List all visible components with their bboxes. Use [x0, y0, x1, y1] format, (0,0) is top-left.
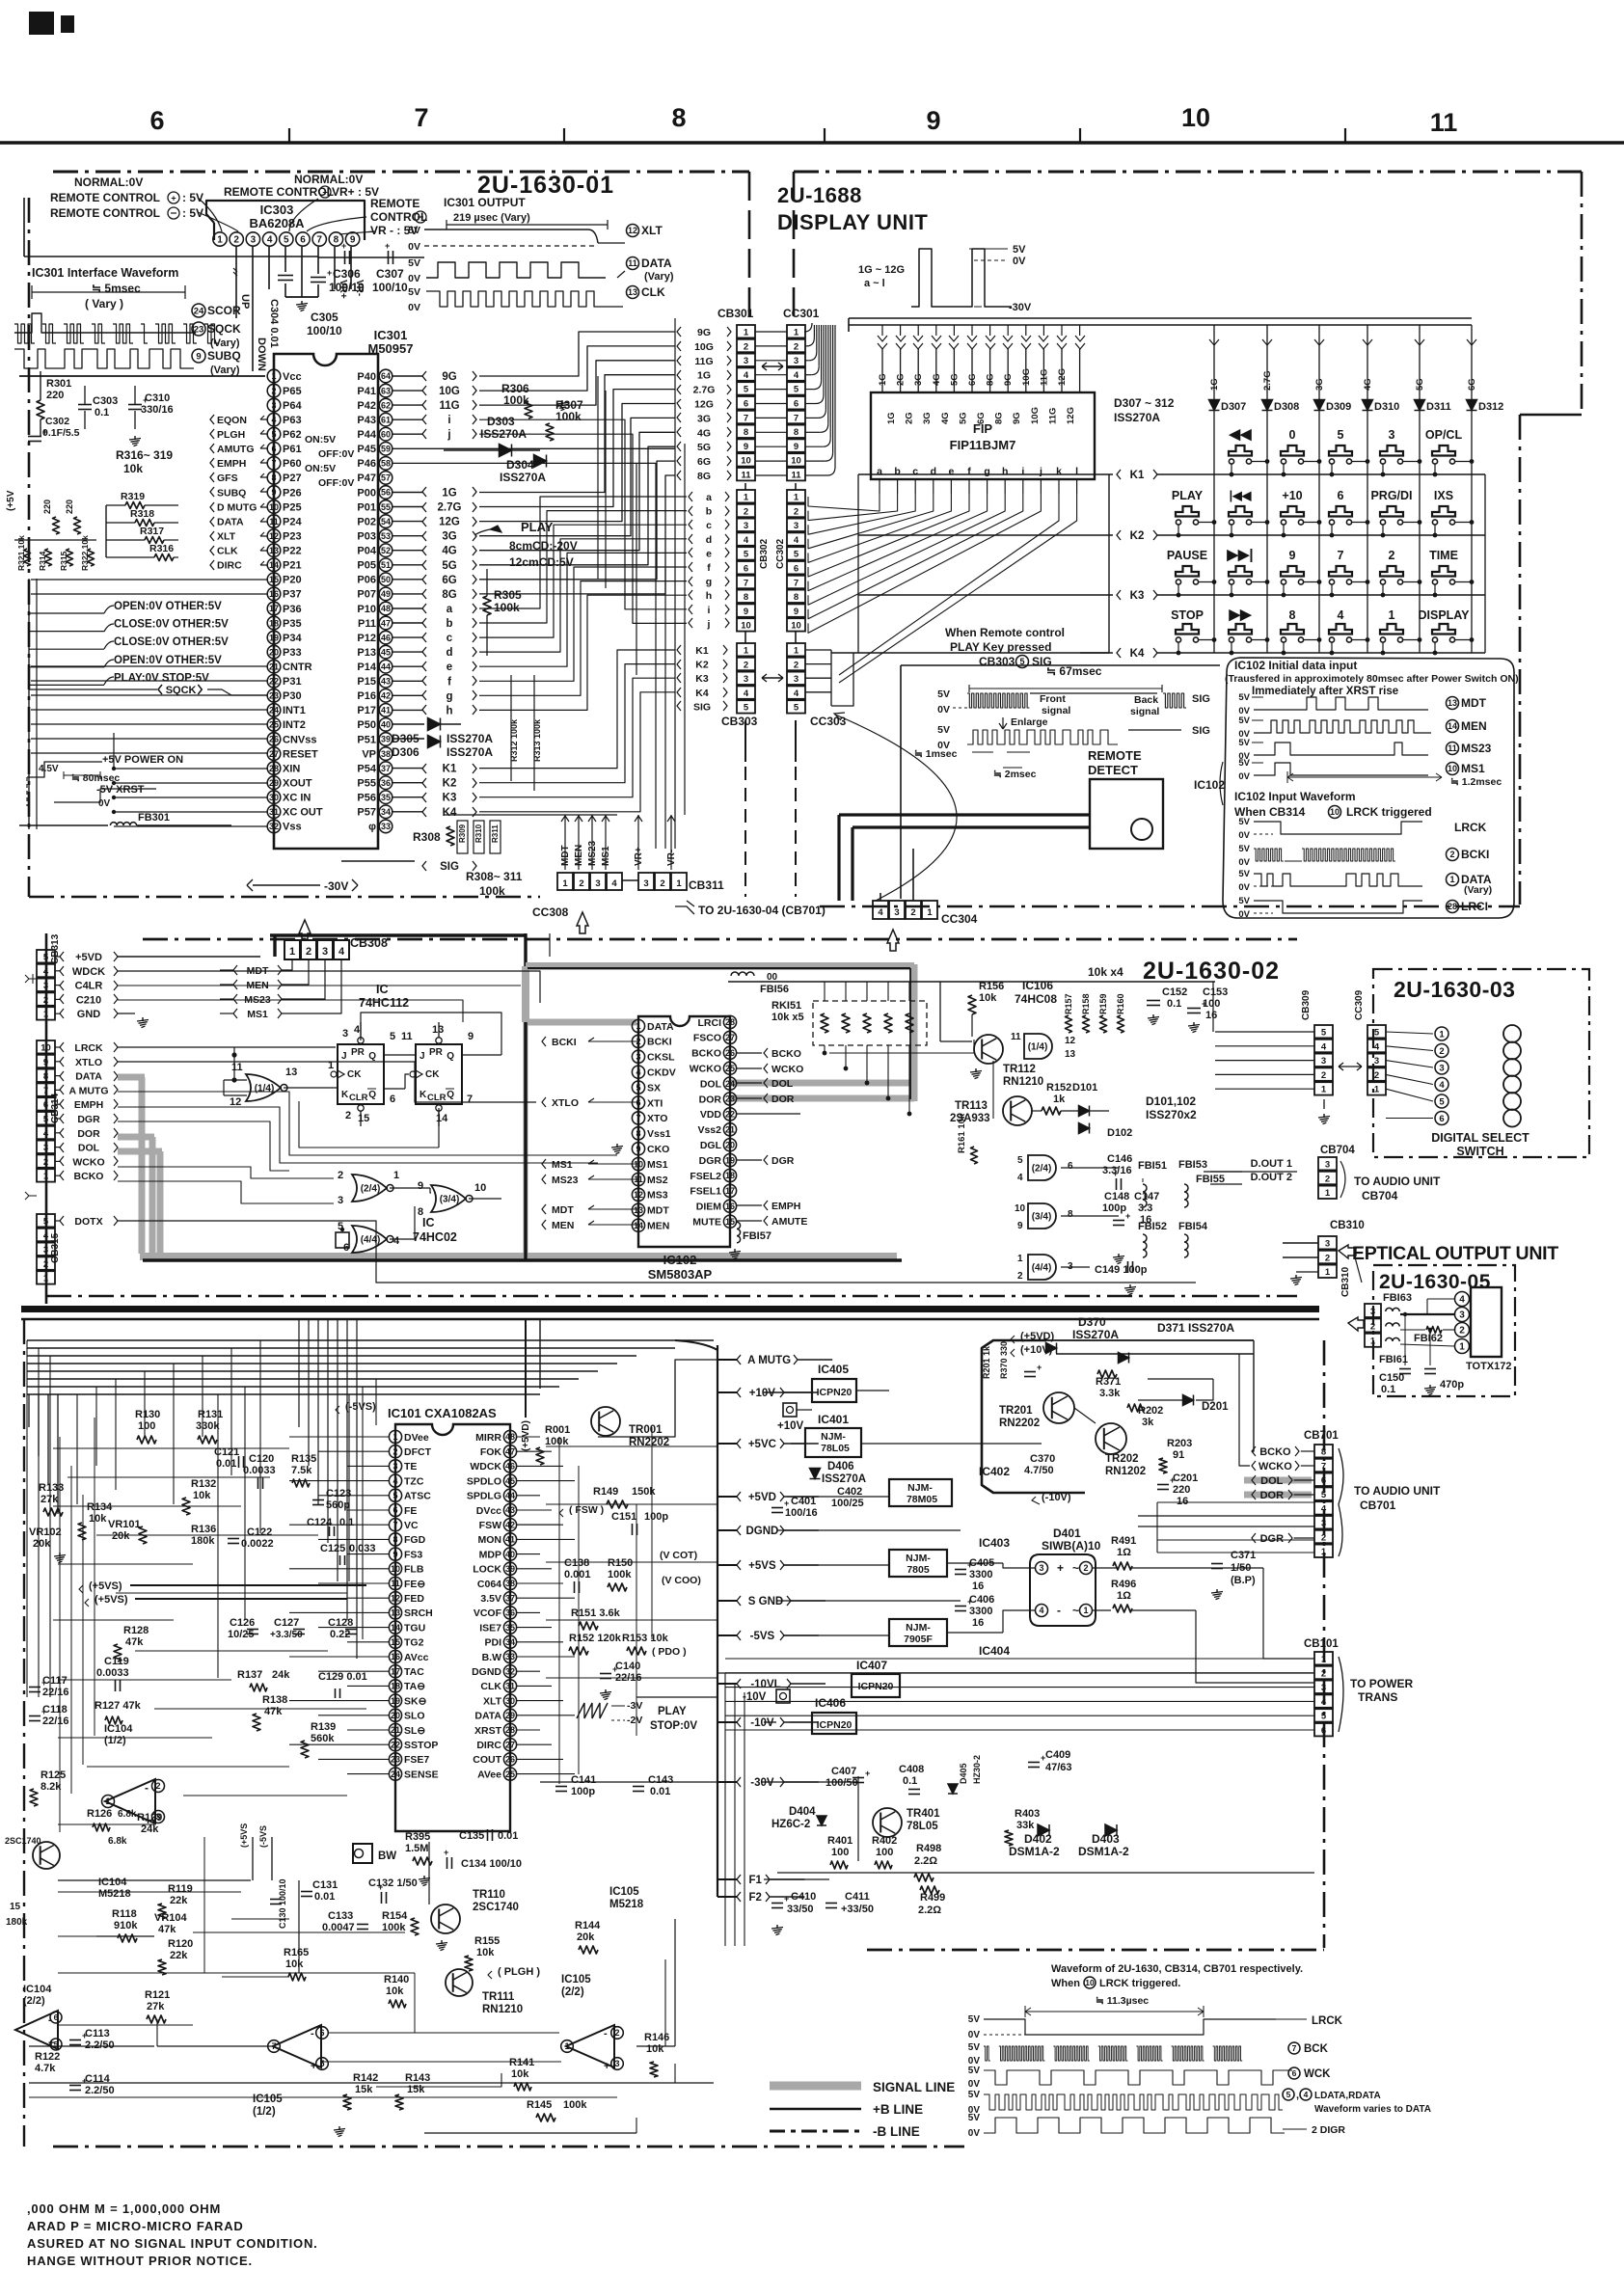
svg-text:CK: CK: [425, 1069, 440, 1080]
svg-text:4: 4: [43, 966, 49, 977]
svg-text:ISS270A: ISS270A: [1114, 411, 1160, 424]
svg-text:10k: 10k: [285, 1958, 304, 1970]
svg-text:Vss1: Vss1: [647, 1128, 671, 1140]
svg-text:ARAD P = MICRO-MICRO FARAD: ARAD P = MICRO-MICRO FARAD: [27, 2219, 244, 2233]
svg-text:P07: P07: [357, 589, 376, 601]
svg-text:c: c: [447, 633, 453, 644]
svg-text:28: 28: [725, 1017, 735, 1027]
svg-text:FBI56: FBI56: [760, 984, 789, 995]
svg-text:a ~ l: a ~ l: [864, 278, 885, 289]
svg-text:2: 2: [271, 386, 276, 395]
svg-text:31: 31: [505, 1682, 515, 1691]
svg-text:+: +: [612, 1664, 617, 1674]
svg-text:(Vary): (Vary): [210, 365, 240, 376]
svg-text:26: 26: [505, 1755, 515, 1765]
svg-text:IC104: IC104: [98, 1877, 127, 1888]
svg-text:ISS270A: ISS270A: [500, 471, 546, 484]
svg-text:DATA: DATA: [474, 1711, 501, 1722]
svg-text:2: 2: [1459, 1326, 1465, 1337]
svg-text:MS1: MS1: [647, 1159, 668, 1171]
svg-text:TR111: TR111: [482, 1991, 515, 2003]
svg-text:R153 10k: R153 10k: [622, 1633, 669, 1644]
svg-text:d: d: [931, 466, 936, 477]
svg-text:IC102: IC102: [663, 1253, 697, 1267]
svg-text:10: 10: [1181, 103, 1210, 132]
svg-text:K4: K4: [443, 807, 457, 819]
svg-text:6: 6: [636, 1098, 640, 1108]
svg-text:C128: C128: [328, 1617, 353, 1629]
svg-text:CLOSE:0V OTHER:5V: CLOSE:0V OTHER:5V: [114, 619, 229, 631]
svg-text:+: +: [82, 2076, 87, 2086]
svg-text:43: 43: [381, 677, 391, 687]
svg-text:11: 11: [628, 258, 637, 268]
svg-text:IC: IC: [376, 983, 389, 996]
svg-text:R143: R143: [405, 2072, 430, 2084]
svg-text:1: 1: [1325, 1188, 1331, 1199]
svg-text:VP: VP: [362, 748, 376, 760]
svg-text:P65: P65: [283, 386, 302, 397]
svg-text:R149: R149: [593, 1486, 618, 1498]
svg-text:220: 220: [1173, 1484, 1190, 1496]
svg-text:0.01: 0.01: [314, 1891, 335, 1903]
svg-text:D405: D405: [959, 1763, 968, 1784]
svg-text:19: 19: [269, 633, 279, 642]
svg-text:37: 37: [381, 764, 391, 773]
svg-text:R498: R498: [916, 1843, 941, 1854]
svg-text:220: 220: [42, 500, 52, 514]
svg-text:+3.3/50: +3.3/50: [270, 1630, 303, 1640]
svg-text:+: +: [41, 1707, 46, 1716]
svg-text:100/25: 100/25: [831, 1498, 864, 1509]
svg-text:27k: 27k: [41, 1494, 59, 1505]
svg-text:5G: 5G: [697, 442, 711, 453]
svg-text:FBI55: FBI55: [1196, 1174, 1225, 1185]
svg-text:CB301: CB301: [717, 307, 754, 320]
svg-text:DGL: DGL: [700, 1140, 722, 1151]
svg-text:2U-1688: 2U-1688: [777, 183, 862, 207]
svg-text:6G: 6G: [976, 412, 987, 424]
svg-text:FSW: FSW: [479, 1520, 501, 1531]
svg-text:(B.P): (B.P): [1231, 1575, 1256, 1586]
svg-text:8: 8: [671, 103, 686, 132]
svg-text:1: 1: [1449, 875, 1454, 884]
svg-text:42: 42: [381, 691, 391, 701]
svg-text:7: 7: [1338, 549, 1344, 562]
svg-text:h: h: [706, 590, 712, 602]
svg-text:6: 6: [1321, 1475, 1326, 1486]
svg-text:R402: R402: [872, 1835, 897, 1847]
svg-text:K4: K4: [1130, 648, 1145, 660]
svg-text:FBI61: FBI61: [1379, 1354, 1408, 1365]
svg-text:3.5V: 3.5V: [480, 1593, 501, 1605]
svg-text:C201: C201: [1173, 1472, 1198, 1484]
svg-text:LRCK triggered: LRCK triggered: [1346, 805, 1432, 819]
svg-text:3: 3: [744, 356, 748, 366]
svg-text:2: 2: [233, 235, 239, 246]
svg-text:+10: +10: [1282, 489, 1302, 502]
svg-text:SIWB(A)10: SIWB(A)10: [1042, 1539, 1101, 1553]
svg-text:NJM-: NJM-: [906, 1622, 931, 1634]
svg-text:C113: C113: [85, 2028, 110, 2039]
svg-text:FBI53: FBI53: [1178, 1159, 1207, 1171]
svg-text:4: 4: [393, 1235, 400, 1247]
svg-text:TR110: TR110: [473, 1889, 505, 1901]
svg-text:(+5VS: (+5VS: [239, 1823, 249, 1848]
svg-text:64: 64: [381, 371, 391, 381]
svg-text:MIRR: MIRR: [475, 1432, 501, 1444]
svg-text:+: +: [1170, 1475, 1175, 1485]
svg-text:36: 36: [381, 778, 391, 788]
svg-text:2: 2: [345, 1110, 351, 1121]
svg-text:NORMAL:0V: NORMAL:0V: [74, 176, 143, 189]
svg-text:K3: K3: [1130, 590, 1145, 602]
svg-text:WCKO: WCKO: [690, 1064, 721, 1075]
svg-text:C122: C122: [247, 1526, 272, 1538]
svg-text:5V: 5V: [937, 689, 950, 700]
svg-text:6: 6: [1068, 1161, 1073, 1172]
svg-text:,: ,: [1296, 2090, 1299, 2101]
svg-text:13: 13: [1448, 698, 1457, 708]
svg-text:(+5VS): (+5VS): [89, 1580, 122, 1592]
svg-text:i: i: [708, 605, 711, 616]
svg-text:47/63: 47/63: [1045, 1762, 1072, 1773]
svg-text:12: 12: [269, 531, 279, 541]
svg-text:6: 6: [392, 1505, 397, 1515]
svg-text:38: 38: [505, 1579, 515, 1588]
svg-text:5: 5: [1321, 1028, 1327, 1039]
svg-text:BCKO: BCKO: [74, 1171, 104, 1182]
svg-text:Waveform of 2U-1630, CB314, C: Waveform of 2U-1630, CB314, CB701 respec…: [1051, 1963, 1303, 1975]
svg-text:48: 48: [381, 604, 391, 613]
svg-text:R318: R318: [130, 508, 154, 520]
svg-text:DOL: DOL: [700, 1078, 722, 1090]
svg-text:0V: 0V: [937, 704, 950, 716]
svg-text:R132: R132: [191, 1478, 216, 1490]
svg-text:IC402: IC402: [979, 1465, 1010, 1478]
svg-text:20: 20: [725, 1140, 735, 1149]
svg-text:d: d: [446, 647, 452, 659]
svg-text:2: 2: [1449, 850, 1454, 859]
svg-text:5V: 5V: [1238, 692, 1250, 703]
svg-text:j: j: [447, 429, 450, 441]
svg-text:BA6208A: BA6208A: [249, 216, 305, 230]
svg-text:2: 2: [306, 946, 311, 958]
svg-text:IC401: IC401: [818, 1413, 849, 1426]
svg-text:ICPN20: ICPN20: [858, 1681, 894, 1692]
svg-text:1: 1: [217, 235, 223, 246]
svg-text:SIG: SIG: [693, 701, 711, 713]
svg-text:IC301 OUTPUT: IC301 OUTPUT: [444, 196, 526, 209]
svg-text:D101,102: D101,102: [1146, 1094, 1196, 1108]
svg-text:WCKO: WCKO: [72, 1156, 104, 1168]
svg-text:g: g: [706, 577, 712, 588]
svg-text:PLAY:0V STOP:5V: PLAY:0V STOP:5V: [114, 672, 209, 684]
svg-text:17: 17: [391, 1666, 400, 1676]
svg-text:R138: R138: [262, 1694, 287, 1706]
svg-text:C148: C148: [1104, 1191, 1129, 1202]
svg-text:21: 21: [269, 662, 279, 671]
svg-text:3k: 3k: [1142, 1417, 1154, 1428]
svg-text:36: 36: [505, 1608, 515, 1618]
svg-text:MON: MON: [478, 1534, 502, 1546]
svg-text:P36: P36: [283, 604, 302, 615]
svg-text:(1/2): (1/2): [253, 2106, 276, 2118]
svg-text:P47: P47: [357, 473, 376, 484]
svg-text:▶▶: ▶▶: [1228, 607, 1253, 623]
svg-text:4: 4: [1321, 1697, 1327, 1708]
svg-text:7905F: 7905F: [904, 1634, 933, 1645]
svg-text:SPDLO: SPDLO: [467, 1475, 501, 1487]
svg-text:25: 25: [725, 1064, 735, 1073]
svg-text:3: 3: [342, 1028, 348, 1040]
svg-text:2: 2: [1083, 1563, 1088, 1573]
svg-text:11: 11: [1011, 1032, 1021, 1042]
svg-text:3: 3: [1439, 1063, 1444, 1073]
svg-text:5V: 5V: [1238, 869, 1250, 879]
svg-text:+: +: [378, 1882, 383, 1892]
svg-text:25: 25: [269, 720, 279, 730]
svg-text:8G: 8G: [442, 589, 456, 601]
svg-text:DOL: DOL: [78, 1143, 100, 1154]
svg-text:|◀◀: |◀◀: [1230, 489, 1253, 502]
svg-text:BCKO: BCKO: [771, 1048, 801, 1060]
svg-text:48: 48: [505, 1432, 515, 1442]
svg-text:28: 28: [1448, 902, 1457, 911]
svg-text:2: 2: [1325, 1174, 1330, 1184]
svg-text:-30V: -30V: [324, 879, 348, 893]
svg-text:CC304: CC304: [941, 912, 978, 926]
svg-text:C401: C401: [791, 1496, 816, 1507]
svg-text:XLT: XLT: [641, 224, 663, 237]
svg-text:XOUT: XOUT: [283, 778, 312, 790]
svg-text:B.W: B.W: [482, 1652, 502, 1663]
svg-text:5V: 5V: [1238, 896, 1250, 906]
svg-text:10: 10: [1330, 807, 1340, 817]
svg-text:50: 50: [381, 575, 391, 584]
svg-text:24: 24: [269, 706, 279, 716]
svg-text:4: 4: [1304, 2090, 1309, 2099]
svg-text:41: 41: [381, 706, 391, 716]
svg-text:29: 29: [505, 1711, 515, 1720]
svg-text:SUBQ: SUBQ: [217, 487, 246, 499]
svg-text:: 5V: : 5V: [182, 191, 203, 204]
svg-text:8: 8: [271, 473, 276, 483]
svg-text:C402: C402: [837, 1486, 862, 1498]
svg-text:DATA: DATA: [217, 516, 244, 527]
svg-text:5: 5: [390, 1031, 395, 1042]
svg-text:16: 16: [725, 1202, 735, 1211]
svg-text:9: 9: [636, 1144, 640, 1153]
svg-text:19: 19: [391, 1696, 400, 1706]
svg-text:52: 52: [381, 546, 391, 555]
svg-text:0V: 0V: [1238, 830, 1250, 841]
svg-text:3: 3: [392, 1462, 397, 1472]
svg-text:20: 20: [269, 647, 279, 657]
svg-text:9: 9: [794, 607, 798, 617]
svg-text:1: 1: [636, 1021, 640, 1031]
svg-text:58: 58: [381, 459, 391, 469]
svg-text:3: 3: [1321, 1519, 1326, 1529]
svg-text:i: i: [447, 415, 450, 426]
svg-text:CB308: CB308: [350, 936, 388, 950]
svg-text:REMOTE: REMOTE: [370, 197, 420, 210]
svg-text:3: 3: [322, 946, 328, 958]
svg-text:≒ 11.3µsec: ≒ 11.3µsec: [1096, 1995, 1149, 2007]
svg-text:SQCK: SQCK: [166, 685, 197, 696]
svg-text:12G: 12G: [1057, 368, 1068, 386]
svg-text:330k: 330k: [196, 1420, 220, 1432]
svg-text:P05: P05: [357, 560, 376, 572]
svg-text:HANGE WITHOUT PRIOR NOTICE.: HANGE WITHOUT PRIOR NOTICE.: [27, 2254, 253, 2268]
svg-text:SSTOP: SSTOP: [404, 1740, 438, 1751]
svg-text:IC405: IC405: [818, 1363, 849, 1376]
svg-text:D307 ~ 312: D307 ~ 312: [1114, 396, 1175, 410]
svg-text:IC404: IC404: [979, 1644, 1010, 1658]
svg-text:-: -: [604, 2028, 608, 2039]
svg-text:XRST: XRST: [474, 1725, 502, 1737]
svg-text:CNTR: CNTR: [283, 662, 312, 673]
svg-text:2.2/50: 2.2/50: [85, 2039, 115, 2051]
svg-text:C134 100/10: C134 100/10: [461, 1858, 522, 1870]
svg-text:R135: R135: [291, 1453, 316, 1465]
svg-text:1.5M: 1.5M: [405, 1843, 428, 1854]
svg-text:When Remote control: When Remote control: [945, 626, 1065, 639]
svg-text:TOTX172: TOTX172: [1466, 1361, 1512, 1372]
svg-text:1: 1: [1374, 1085, 1380, 1095]
svg-text:6: 6: [744, 399, 748, 410]
svg-text:1: 1: [1083, 1606, 1088, 1615]
svg-text:IC301: IC301: [374, 328, 408, 342]
svg-text:WCKO: WCKO: [771, 1064, 803, 1075]
svg-text:0.0022: 0.0022: [241, 1538, 274, 1550]
svg-text:LRCK: LRCK: [1454, 821, 1487, 834]
svg-text:DGR: DGR: [1260, 1533, 1285, 1545]
svg-text:R203: R203: [1167, 1438, 1192, 1449]
svg-text:P10: P10: [357, 604, 376, 615]
svg-text:+10V: +10V: [749, 1388, 776, 1399]
svg-text:R127 47k: R127 47k: [95, 1700, 142, 1712]
svg-text:BCKO: BCKO: [1259, 1446, 1291, 1458]
svg-text:C133: C133: [328, 1910, 353, 1922]
svg-text:3: 3: [1459, 1310, 1465, 1321]
svg-text:CLK: CLK: [641, 285, 665, 299]
svg-text:φ: φ: [368, 822, 376, 833]
svg-text:0.0033: 0.0033: [96, 1667, 129, 1679]
svg-text:4G: 4G: [1363, 378, 1373, 391]
svg-text:2U-1630-03: 2U-1630-03: [1394, 977, 1515, 1002]
svg-text:4: 4: [1459, 1295, 1465, 1306]
svg-text:22/16: 22/16: [42, 1687, 69, 1698]
svg-text:3G: 3G: [913, 373, 924, 386]
svg-text:2: 2: [1325, 1253, 1330, 1263]
svg-text:9G: 9G: [1003, 373, 1014, 386]
svg-text:DGR: DGR: [77, 1114, 100, 1125]
svg-text:R308~ 311: R308~ 311: [466, 870, 523, 883]
svg-text:2: 2: [1389, 549, 1395, 562]
svg-text:C370: C370: [1030, 1453, 1055, 1465]
svg-text:5: 5: [1374, 1028, 1380, 1039]
svg-text:24k: 24k: [272, 1669, 290, 1681]
svg-text:ON:5V: ON:5V: [305, 434, 336, 446]
svg-text:ISS270x2: ISS270x2: [1146, 1108, 1197, 1121]
svg-text:15: 15: [391, 1637, 400, 1647]
svg-text:6.8k: 6.8k: [118, 1809, 137, 1820]
svg-text:C127: C127: [274, 1617, 299, 1629]
svg-text:10: 10: [741, 621, 751, 632]
svg-text:SIG: SIG: [440, 861, 459, 873]
svg-text:45: 45: [381, 647, 391, 657]
svg-text:22: 22: [725, 1110, 735, 1120]
svg-text:6: 6: [319, 2028, 324, 2038]
svg-text:5V: 5V: [408, 286, 420, 298]
svg-text:P04: P04: [357, 546, 376, 557]
svg-text:31: 31: [269, 807, 279, 817]
svg-text:12G: 12G: [439, 517, 460, 528]
svg-text:27k: 27k: [147, 2001, 165, 2012]
svg-text:(4/4): (4/4): [361, 1235, 381, 1246]
svg-text:K2: K2: [1130, 530, 1145, 542]
svg-text:C210: C210: [76, 994, 101, 1006]
svg-text:SRCH: SRCH: [404, 1607, 433, 1619]
svg-text:ASURED AT NO SIGNAL INPUT COND: ASURED AT NO SIGNAL INPUT CONDITION.: [27, 2236, 318, 2251]
svg-text:6: 6: [794, 564, 798, 575]
svg-text:j: j: [1039, 466, 1042, 477]
svg-text:14: 14: [436, 1113, 448, 1124]
svg-text:OFF:0V: OFF:0V: [318, 477, 354, 489]
svg-text:16: 16: [269, 589, 279, 599]
svg-text:100k: 100k: [555, 410, 582, 423]
svg-text:3: 3: [894, 907, 899, 918]
svg-text:C125: C125: [320, 1543, 345, 1554]
svg-text:WDCK: WDCK: [72, 966, 105, 978]
svg-text:MEN: MEN: [1461, 719, 1487, 733]
svg-text:1: 1: [744, 493, 749, 503]
svg-text:13: 13: [628, 287, 637, 297]
svg-text:+: +: [82, 2031, 87, 2040]
svg-text:Q: Q: [447, 1090, 454, 1100]
svg-text:R121: R121: [145, 1989, 170, 2001]
svg-text:d: d: [706, 534, 712, 546]
svg-text:8: 8: [43, 1071, 48, 1082]
svg-text:A MUTG: A MUTG: [68, 1085, 108, 1096]
svg-text:2: 2: [1017, 1271, 1023, 1282]
svg-text:17: 17: [269, 604, 279, 613]
svg-text:CB310: CB310: [1330, 1220, 1365, 1231]
svg-text:4G: 4G: [697, 427, 711, 439]
svg-text:DOL: DOL: [1260, 1475, 1284, 1487]
svg-text:4G: 4G: [442, 546, 456, 557]
svg-text:150k: 150k: [632, 1486, 656, 1498]
svg-text:FE: FE: [404, 1505, 417, 1517]
svg-text:4: 4: [1321, 1041, 1327, 1052]
svg-text:BCKO: BCKO: [691, 1048, 721, 1060]
svg-text:2: 2: [579, 878, 583, 889]
svg-text:CLK: CLK: [217, 546, 238, 557]
svg-text:(Vary): (Vary): [210, 338, 240, 349]
svg-text:10: 10: [474, 1182, 486, 1194]
svg-text:28: 28: [269, 764, 279, 773]
svg-text:7: 7: [392, 1520, 397, 1529]
svg-text:(Vary): (Vary): [1464, 884, 1492, 896]
svg-text:24: 24: [725, 1079, 735, 1089]
svg-text:5: 5: [744, 385, 749, 395]
svg-text:DIEM: DIEM: [696, 1202, 722, 1213]
svg-text:3: 3: [794, 356, 798, 366]
svg-text:9: 9: [744, 442, 748, 452]
svg-text:5V: 5V: [1238, 844, 1250, 854]
svg-text:60: 60: [381, 430, 391, 440]
svg-text:8G: 8G: [994, 412, 1005, 424]
